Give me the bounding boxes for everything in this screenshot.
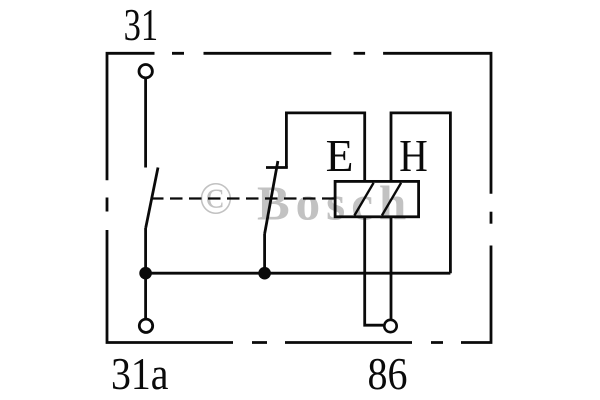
terminal 31 (top circle) <box>139 65 152 78</box>
svg-text:E: E <box>326 130 354 181</box>
wire: element bottom-right lead to terminal 86 <box>390 217 393 319</box>
relay housing outline: bottom-right corner <box>461 246 491 343</box>
relay housing outline: top border dashes <box>172 52 365 55</box>
switch S2 fixed contact foot <box>266 166 288 169</box>
terminal 31a (bottom-left circle) <box>139 319 152 332</box>
wire: bottom bus from junction A to right side riser <box>146 272 451 275</box>
svg-text:H: H <box>399 130 428 181</box>
junction A (dot) <box>139 267 152 280</box>
relay housing outline: bottom-left corner <box>107 230 233 343</box>
svg-text:86: 86 <box>368 348 408 399</box>
relay housing outline: top-right corner <box>383 53 491 193</box>
heating element hatch stroke 2 <box>382 183 401 216</box>
wire: H-coil loop (up, across, down to bus) <box>391 113 450 273</box>
relay housing outline: left border dashes <box>106 198 109 212</box>
heating element hatch stroke 1 <box>354 183 373 216</box>
wire: element bottom-left lead with elbow to terminal 86 <box>365 217 384 325</box>
relay housing outline: top-left corner (dash-dot border) <box>107 53 155 180</box>
mechanical link: dashed actuation line between S1 and S2 and element <box>151 197 335 199</box>
junction B (dot) <box>258 267 271 280</box>
svg-text:31a: 31a <box>111 348 169 399</box>
relay housing outline: right border dashes <box>490 212 493 224</box>
terminal 86 (bottom-right circle) <box>384 320 396 332</box>
wire: E-coil loop (up, across, down to element) <box>286 113 364 181</box>
wire: switch S1 to junction A and terminal 31a <box>144 228 147 318</box>
heating element (hatched resistor box) <box>335 181 419 216</box>
wire: terminal 31 down to switch S1 <box>144 78 147 168</box>
switch S2 contact blade <box>265 161 278 234</box>
svg-text:31: 31 <box>124 0 159 50</box>
relay housing outline: bottom border dashes <box>252 341 443 344</box>
switch S1 contact blade <box>146 168 158 229</box>
wire: junction B up to switch S2 <box>263 234 266 273</box>
